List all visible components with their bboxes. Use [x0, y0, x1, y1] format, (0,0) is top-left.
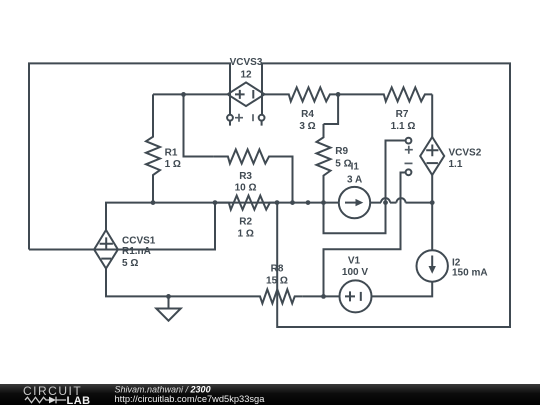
VCVS3 op source diamond [228, 82, 265, 106]
svg-text:R1.nA: R1.nA [122, 246, 151, 257]
svg-text:R2: R2 [239, 217, 252, 228]
node dot V1 left junction [321, 294, 326, 299]
I2 arrow [431, 256, 433, 267]
VCVS2 minus mark [427, 162, 438, 164]
svg-text:VCVS2: VCVS2 [449, 148, 482, 159]
node junction R4/R7/R9 [336, 92, 341, 97]
svg-text:3 A: 3 A [347, 175, 362, 186]
svg-text:R8: R8 [271, 263, 284, 274]
VCVS2 control terminal + circle [406, 138, 412, 144]
current source I1 [339, 187, 370, 218]
svg-text:R1: R1 [165, 148, 178, 159]
svg-text:150 mA: 150 mA [452, 268, 488, 279]
node junction at R1 top branch [181, 92, 186, 97]
svg-text:5 Ω: 5 Ω [335, 159, 351, 170]
svg-text:10 Ω: 10 Ω [235, 183, 257, 194]
wire rail hop over control wire 1 [381, 198, 390, 203]
svg-text:R4: R4 [301, 109, 314, 120]
svg-text:15 Ω: 15 Ω [266, 276, 288, 287]
VCVS2 plus mark [426, 145, 438, 157]
VCVS2 control plus mark [405, 146, 413, 154]
node dot R2 left [213, 200, 218, 205]
svg-text:LAB: LAB [67, 395, 91, 405]
svg-text:R7: R7 [396, 109, 409, 120]
wire U loop under I1 [324, 203, 386, 234]
I1 arrow [345, 202, 357, 204]
wire bottom rail [106, 203, 432, 230]
VCVS2 control minus mark [405, 162, 413, 164]
svg-text:CCVS1: CCVS1 [122, 235, 156, 246]
node dot mid rail [306, 200, 311, 205]
svg-text:3 Ω: 3 Ω [299, 121, 315, 132]
ground [168, 296, 170, 308]
CCVS1 source diamond [94, 230, 118, 269]
svg-text:1.1: 1.1 [449, 159, 463, 170]
VCVS3 control minus mark [252, 114, 254, 121]
wire VCVS2 bottom through rail to I2 [431, 175, 433, 250]
svg-text:VCVS3: VCVS3 [230, 57, 263, 68]
resistor R8 [246, 289, 303, 303]
svg-text:100 V: 100 V [342, 267, 368, 278]
node dot R1 bottom [151, 200, 156, 205]
wire VCVS2 top to R7 [431, 94, 433, 137]
wire VCVS3 left output to node [153, 93, 227, 95]
wire CCVS1 through-wire to rail [29, 203, 215, 250]
resistor R3 [214, 150, 293, 203]
wire top rail right segment [262, 63, 510, 327]
wire VCVS2 top control from rail crossing [386, 141, 406, 234]
svg-text:I1: I1 [351, 162, 360, 173]
resistor R1 [146, 94, 160, 202]
node dot R3 right [290, 200, 295, 205]
VCVS3 plus mark [235, 90, 245, 99]
wire R9 jog from R4/R7 node [324, 94, 339, 124]
svg-text:R9: R9 [335, 146, 348, 157]
resistor R7 [338, 87, 432, 101]
VCVS3 control terminal - circle [259, 115, 265, 121]
V1 plus mark [345, 291, 355, 301]
CCVS1 minus mark [101, 258, 111, 260]
VCVS3 control plus mark [235, 114, 243, 122]
node dot R9 bottom / I1 left [321, 200, 326, 205]
resistor R9 [317, 124, 331, 203]
node dot I1 right [383, 200, 388, 205]
current source I2 [417, 250, 448, 281]
wire VCVS2 bottom control path [324, 173, 406, 297]
wire branch down to R3 [184, 94, 214, 156]
svg-text:Shivam.nathwani / 2300: Shivam.nathwani / 2300 [115, 385, 211, 395]
svg-text:V1: V1 [348, 255, 361, 266]
svg-text:12: 12 [240, 69, 252, 80]
voltage source V1 [340, 280, 372, 312]
wire I2 bottom to V1 [372, 282, 433, 297]
VCVS3 minus mark (rotated bar) [252, 90, 254, 99]
wire top rail left segment [29, 63, 230, 249]
svg-text:5 Ω: 5 Ω [122, 258, 138, 269]
VCVS3 control terminal + circle [227, 115, 233, 121]
svg-text:1 Ω: 1 Ω [165, 159, 181, 170]
VCVS2 source diamond [420, 137, 444, 175]
node dot ground junction [166, 294, 171, 299]
V1 minus mark (rotated bar) [360, 292, 362, 301]
svg-text:http://circuitlab.com/ce7wd5kp: http://circuitlab.com/ce7wd5kp33sga [115, 394, 266, 404]
wire bottom net CCVS1 to V1 [106, 269, 340, 297]
logo resistor squiggle and diode [25, 397, 49, 402]
resistor R4 [265, 87, 339, 101]
resistor R2 [215, 196, 278, 210]
node dot VCVS2 bottom rail [430, 200, 435, 205]
node dot R2 right [275, 200, 280, 205]
svg-text:R3: R3 [239, 171, 252, 182]
VCVS2 control terminal - circle [406, 169, 412, 175]
VCVS3 control stubs [230, 121, 262, 126]
CCVS1 plus mark [100, 237, 113, 250]
svg-text:1.1 Ω: 1.1 Ω [391, 121, 416, 132]
svg-text:1 Ω: 1 Ω [238, 228, 254, 239]
wire rail hop over control wire 2 [397, 198, 406, 203]
